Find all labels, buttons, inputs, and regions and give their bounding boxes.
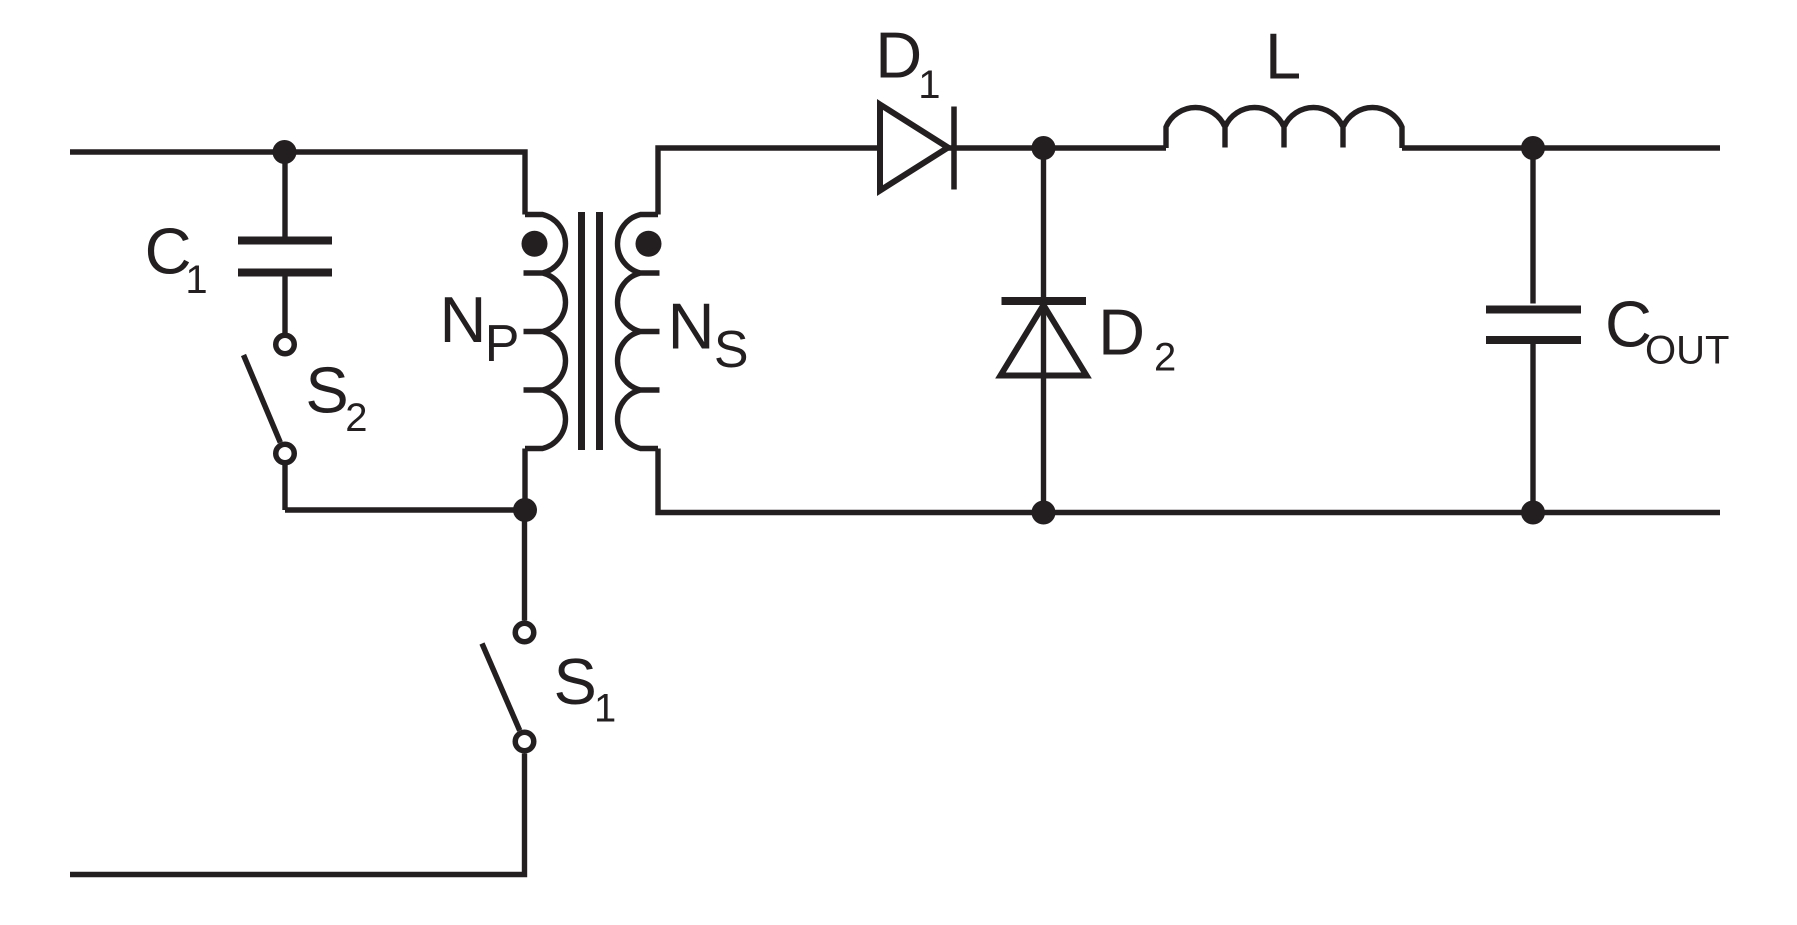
svg-text:S: S (305, 354, 348, 427)
svg-text:P: P (485, 315, 520, 373)
svg-text:D: D (1098, 295, 1145, 368)
svg-text:1: 1 (185, 258, 207, 302)
svg-text:1: 1 (594, 687, 616, 731)
svg-text:N: N (668, 289, 715, 362)
svg-text:OUT: OUT (1645, 329, 1729, 373)
svg-text:2: 2 (345, 396, 367, 440)
svg-text:D: D (875, 19, 922, 92)
svg-text:L: L (1265, 20, 1301, 93)
svg-text:N: N (440, 283, 487, 356)
svg-text:2: 2 (1154, 336, 1176, 380)
svg-text:S: S (554, 645, 597, 718)
svg-text:1: 1 (918, 63, 940, 107)
svg-text:S: S (714, 321, 749, 379)
